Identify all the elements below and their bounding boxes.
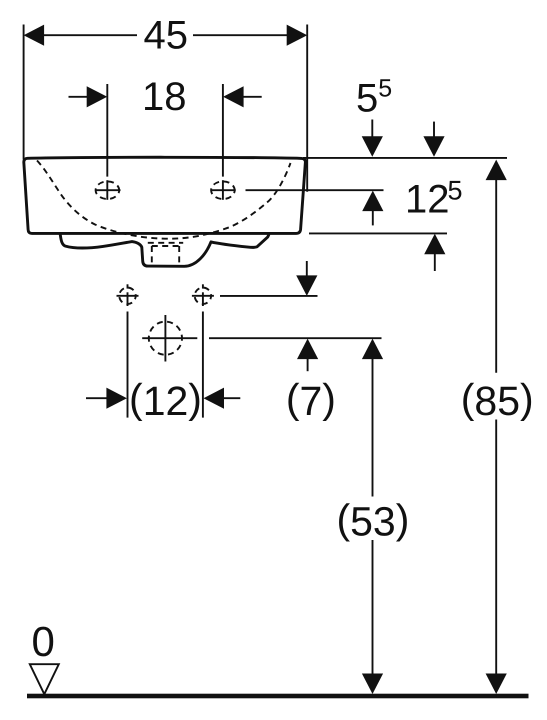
svg-text:0: 0 (32, 618, 55, 665)
svg-text:(85): (85) (461, 376, 534, 425)
svg-text:(53): (53) (336, 496, 409, 545)
svg-text:45: 45 (144, 13, 189, 57)
svg-text:18: 18 (142, 75, 187, 119)
svg-text:(7): (7) (286, 376, 336, 425)
svg-text:(12): (12) (129, 376, 202, 425)
